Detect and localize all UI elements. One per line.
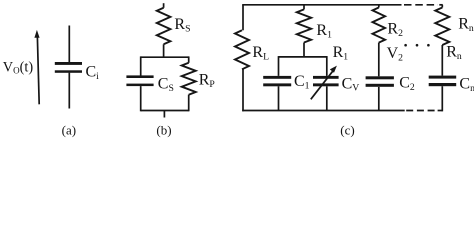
svg-text:V2: V2	[387, 45, 404, 63]
svg-text:RS: RS	[174, 16, 190, 34]
svg-text:(c): (c)	[340, 122, 354, 137]
svg-text:Rn: Rn	[446, 44, 462, 62]
svg-text:RP: RP	[199, 71, 215, 89]
svg-text:CS: CS	[158, 76, 174, 94]
svg-text:R1: R1	[316, 22, 332, 40]
svg-text:Ci: Ci	[86, 64, 100, 82]
svg-text:C2: C2	[399, 75, 415, 93]
svg-text:(b): (b)	[156, 122, 171, 137]
svg-text:CV: CV	[342, 75, 360, 93]
svg-text:RL: RL	[252, 44, 269, 62]
svg-text:Rn: Rn	[458, 16, 474, 34]
svg-text:C1: C1	[294, 73, 310, 91]
svg-text:R2: R2	[387, 21, 403, 39]
svg-text:VO(t): VO(t)	[3, 59, 34, 75]
svg-text:(a): (a)	[62, 122, 76, 137]
svg-text:Cn: Cn	[459, 75, 474, 93]
svg-text:R1: R1	[333, 44, 349, 62]
